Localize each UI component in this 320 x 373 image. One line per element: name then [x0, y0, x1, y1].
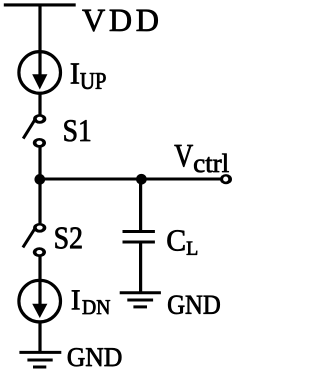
wire node to S2 [38, 179, 41, 223]
wire I_UP to S1 [38, 93, 41, 114]
label GND bottom [68, 348, 121, 366]
ground GND capacitor [120, 293, 161, 307]
switch S2 [23, 223, 46, 257]
switch S1 [23, 114, 46, 148]
wire node to output terminal [40, 178, 221, 181]
capacitor C_L [123, 232, 155, 243]
junction dot capacitor tap [136, 174, 147, 185]
current source I_UP [19, 52, 61, 94]
wire VDD rail to I_UP [38, 5, 41, 77]
wire I_DN to ground [38, 322, 41, 354]
label S1 [64, 120, 90, 141]
power rail VDD [4, 3, 76, 6]
wire S2 to I_DN [38, 256, 41, 306]
node Vctrl junction dot [34, 174, 45, 185]
label C_L [168, 230, 198, 255]
current source I_DN [19, 280, 61, 322]
label GND capacitor [168, 296, 220, 315]
output terminal Vctrl [220, 174, 232, 184]
label I_DN [72, 290, 110, 314]
label I_UP [71, 64, 106, 90]
ground GND bottom [19, 352, 61, 367]
label S2 [56, 227, 82, 248]
label VDD [82, 10, 157, 32]
wire C_L to ground [139, 243, 142, 294]
wire junction to capacitor C_L [139, 179, 142, 231]
wire S1 to node [38, 147, 41, 181]
label Vctrl [175, 145, 229, 172]
